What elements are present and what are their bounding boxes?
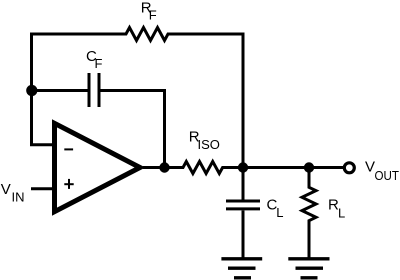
svg-text:IN: IN — [12, 190, 25, 205]
svg-text:ISO: ISO — [198, 137, 220, 152]
svg-text:OUT: OUT — [375, 168, 400, 183]
svg-text:L: L — [338, 206, 345, 221]
svg-text:L: L — [276, 205, 283, 220]
svg-text:V: V — [1, 181, 11, 198]
svg-text:V: V — [365, 159, 375, 176]
svg-text:F: F — [95, 56, 103, 71]
svg-text:F: F — [149, 8, 157, 23]
